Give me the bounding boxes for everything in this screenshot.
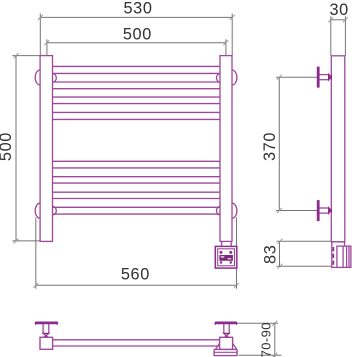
dimension 83 (side view bottom) xyxy=(277,241,341,266)
bottom view: left bracket stem xyxy=(43,324,49,334)
dimension 500 height (left) xyxy=(12,56,52,241)
electric box inner xyxy=(218,249,235,266)
side view heater cap xyxy=(337,246,351,267)
electric box neck xyxy=(222,241,232,246)
svg-text:560: 560 xyxy=(121,266,150,284)
bottom view: tube xyxy=(53,340,220,346)
svg-text:83: 83 xyxy=(262,245,280,264)
front view rungs top group xyxy=(53,66,220,119)
electric box dots xyxy=(220,251,223,254)
svg-text:70-90: 70-90 xyxy=(258,322,273,357)
front view rungs bottom group xyxy=(53,161,220,214)
bottom-right rung end cap xyxy=(217,206,221,215)
bottom view: right bracket block xyxy=(220,337,233,349)
side view bottom bracket bowtie xyxy=(328,207,331,214)
bottom view: transition to box xyxy=(215,343,237,349)
side view top bracket stem xyxy=(319,75,328,80)
top-left rung end cap xyxy=(53,74,57,83)
bottom view: left bracket plate xyxy=(35,322,58,324)
svg-text:500: 500 xyxy=(123,25,152,43)
dimension 500 width xyxy=(47,39,226,55)
side view heater hidden line xyxy=(332,247,334,267)
bottom view: left bracket bowtie xyxy=(43,333,49,337)
bottom-left rung end cap xyxy=(53,206,57,215)
dimension 30 (side view top) xyxy=(331,16,346,56)
bottom view: electric box bottom xyxy=(214,349,237,355)
bottom view: left bracket block xyxy=(40,337,53,349)
electric box outer xyxy=(215,246,237,268)
electric box lower squares xyxy=(220,261,222,263)
side view top bracket bowtie xyxy=(328,74,331,81)
front view: right post xyxy=(220,56,232,242)
dimension 370 (side view) xyxy=(276,77,317,210)
side view heater housing xyxy=(332,242,345,268)
top-left wall bracket circle xyxy=(35,70,40,85)
dimension 530 xyxy=(40,14,232,56)
svg-text:370: 370 xyxy=(261,132,279,161)
front view: left post xyxy=(40,56,52,242)
svg-text:530: 530 xyxy=(124,0,153,18)
bottom view: right bracket plate xyxy=(215,322,237,324)
side view top bracket plate xyxy=(317,67,319,87)
svg-text:30: 30 xyxy=(330,1,349,19)
side view tube xyxy=(331,56,345,242)
bottom-right wall bracket circle xyxy=(232,203,237,218)
dimension 70-90 (bottom view) xyxy=(237,323,282,357)
bottom view: right bracket bowtie xyxy=(224,333,229,337)
electric box display xyxy=(219,255,233,261)
top-right rung end cap xyxy=(217,74,220,83)
side view bottom bracket plate xyxy=(317,201,319,221)
dimension 560 bottom xyxy=(36,218,237,289)
bottom-left wall bracket circle xyxy=(35,203,40,218)
bottom view: right bracket stem xyxy=(224,324,229,334)
svg-text:500: 500 xyxy=(0,132,15,161)
side view bottom bracket stem xyxy=(319,208,328,213)
top-right wall bracket circle xyxy=(232,70,237,85)
